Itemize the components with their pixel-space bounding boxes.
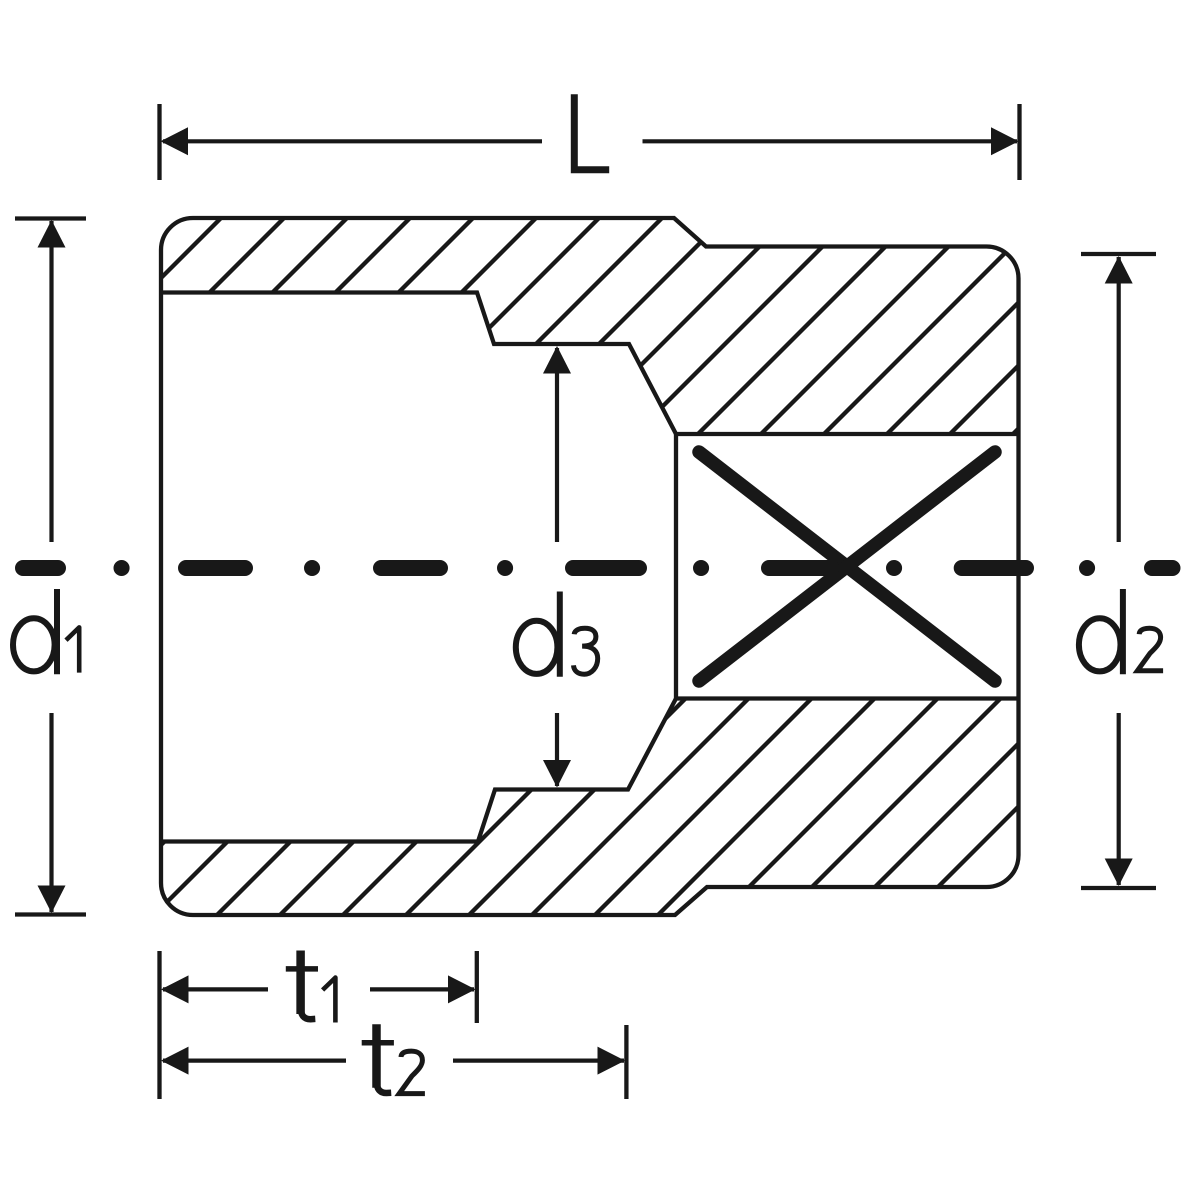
label d2: [1079, 589, 1163, 674]
centerline (dash-dot axis): [23, 560, 1173, 576]
dimension d1: top arrowhead: [38, 220, 66, 248]
label t1: [286, 951, 336, 1023]
dimension d3: bottom arrowhead: [543, 760, 571, 788]
dimension d2: bottom arrowhead: [1105, 859, 1133, 887]
label d3: [516, 592, 598, 677]
dimension d2: top arrowhead: [1105, 256, 1133, 284]
dimension d2: extension tick bottom: [1081, 886, 1156, 890]
label t2: [362, 1024, 425, 1093]
dimension t1: line left segment: [163, 987, 268, 991]
dimension t1: extension tick right: [475, 951, 479, 1023]
dimension L: left arrowhead: [161, 127, 189, 155]
dimension d3: top arrowhead: [543, 346, 571, 374]
dimension t1: left arrowhead: [161, 975, 189, 1003]
dimension d1: extension tick top: [15, 216, 86, 220]
dimension L: line left segment: [163, 139, 542, 143]
dimension t2: extension tick right: [624, 1025, 628, 1099]
dimension d1: bottom arrowhead: [38, 886, 66, 914]
dimension d2: extension tick top: [1081, 252, 1156, 256]
dimension L: line right segment: [643, 139, 1018, 143]
dimension d2: line lower segment: [1117, 713, 1121, 885]
dimension t1: right arrowhead: [448, 975, 476, 1003]
dimension d1: line lower segment: [49, 713, 53, 912]
dimension t1/t2: shared extension tick left: [157, 951, 161, 1099]
dimension d3: line lower segment: [555, 713, 559, 786]
dimension d1: line upper segment: [49, 221, 53, 542]
square drive hole left face: [674, 434, 678, 699]
dimension L: right arrowhead: [991, 127, 1019, 155]
square drive X marking: [699, 452, 995, 681]
dimension d3: line upper segment: [555, 348, 559, 542]
inner cavity contour top: [161, 293, 1019, 435]
dimension L: extension tick right: [1017, 104, 1021, 180]
dimension L: extension tick left: [157, 104, 161, 180]
label L: [574, 94, 609, 170]
dimension t2: left arrowhead: [161, 1047, 189, 1075]
dimension d2: line upper segment: [1117, 257, 1121, 542]
dimension d1: extension tick bottom: [15, 912, 86, 916]
inner cavity contour bottom: [161, 699, 1019, 842]
label d1: [13, 589, 79, 674]
dimension t2: line right segment: [453, 1058, 624, 1062]
dimension t2: line left segment: [163, 1058, 346, 1062]
dimension t1: line right segment: [370, 987, 474, 991]
dimension t2: right arrowhead: [598, 1047, 626, 1075]
socket body outer contour: [161, 218, 1019, 915]
